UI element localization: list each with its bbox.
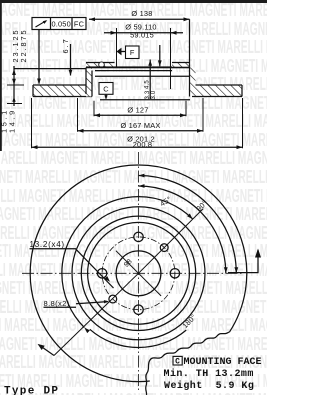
svg-text:Ø 138: Ø 138 <box>131 9 152 18</box>
horizontal centreline <box>22 272 244 274</box>
hub face thick line <box>86 66 190 68</box>
bolt hole bottom 13.2 <box>134 305 143 314</box>
inner circle R57.2 <box>81 216 195 330</box>
small hole 8.8 at 45deg <box>160 244 168 252</box>
datum F triangle and box <box>117 48 122 56</box>
svg-text:C: C <box>103 85 109 94</box>
hat wall left (hatched) <box>86 68 92 97</box>
dim dia 138 <box>89 18 190 20</box>
svg-text:Weight 5.9 Kg: Weight 5.9 Kg <box>164 380 254 392</box>
svg-text:59.015: 59.015 <box>130 31 154 40</box>
mounting flange left (hatched) <box>86 63 115 67</box>
small hole 8.8 at 225deg <box>109 295 117 303</box>
dim dia 127 <box>94 101 186 117</box>
svg-text:0.050: 0.050 <box>51 19 71 28</box>
centre bore <box>116 251 161 296</box>
bore right edge <box>170 28 172 89</box>
svg-text:Ø 167 MAX: Ø 167 MAX <box>120 121 160 130</box>
hat wall right (hatched) <box>190 68 196 86</box>
scan border top <box>0 0 267 3</box>
svg-text:4.5: 4.5 <box>145 80 151 89</box>
diagonal NW short <box>116 251 139 274</box>
svg-text:Ø 127: Ø 127 <box>127 106 148 115</box>
angular dim arc 90deg <box>139 176 237 274</box>
svg-text:180°: 180° <box>180 312 198 330</box>
inner circle R50.9 <box>88 222 190 324</box>
diagonal NE (45 deg) <box>139 209 204 274</box>
feature control frame (runout 0.050 FC) <box>32 18 86 30</box>
dim 3.0/3.3 vertical in bore <box>149 60 151 100</box>
bolt hole left 13.2 <box>97 269 106 278</box>
bore left edge <box>116 28 118 67</box>
FCF leader arrow to friction surface <box>38 30 40 84</box>
svg-text:90°: 90° <box>194 198 209 213</box>
torn edge (break line) <box>146 332 229 395</box>
angular dim arc 45deg <box>139 186 226 273</box>
left dimension line 23.125 / 15.1 <box>13 66 15 106</box>
left overall-height extension line <box>14 68 86 70</box>
bolt hole in flange <box>99 62 105 68</box>
bolt hole top 13.2 <box>134 232 143 241</box>
diagonal SW (225 deg) <box>54 273 139 355</box>
friction ring right (hatched) <box>190 85 243 97</box>
svg-text:6.7: 6.7 <box>61 37 70 53</box>
diagonal SE short <box>139 273 162 296</box>
friction ring left (hatched) <box>33 85 86 97</box>
svg-text:45°: 45° <box>158 194 173 208</box>
svg-text:200.8: 200.8 <box>133 140 153 149</box>
svg-text:22.875: 22.875 <box>19 28 28 62</box>
svg-text:MOUNTING FACE: MOUNTING FACE <box>184 357 262 368</box>
svg-text:Type DP: Type DP <box>4 386 59 395</box>
horizontal reference arrow right <box>228 250 258 273</box>
svg-text:3.3: 3.3 <box>145 90 151 99</box>
svg-text:13.2(x4): 13.2(x4) <box>30 240 65 249</box>
mounting flange right (hatched) <box>172 63 190 67</box>
note box C MOUNTING FACE <box>173 356 182 365</box>
hub bottom (mounting face C) <box>100 99 190 101</box>
svg-text:14.9: 14.9 <box>8 108 17 133</box>
bolt circle (centreline) <box>102 237 175 310</box>
angular dim arc 180deg <box>62 197 193 328</box>
svg-text:Min. TH 13.2mm: Min. TH 13.2mm <box>164 368 254 380</box>
aux arrow at hub face <box>159 45 161 66</box>
dia 138 right extension + wall edge <box>189 19 191 96</box>
dim 6.7 flange thickness <box>70 44 72 76</box>
svg-text:F: F <box>130 48 135 57</box>
vertical centreline <box>138 152 140 391</box>
dim dia 167 MAX <box>78 98 204 132</box>
datum C box and leader <box>99 83 113 95</box>
bolt hole right 13.2 <box>170 269 179 278</box>
svg-text:3.0: 3.0 <box>151 90 157 99</box>
dim dia 59.110/59.015 <box>117 32 171 34</box>
dim dia 201.2/200.8 <box>32 98 243 148</box>
scan border left <box>0 0 2 151</box>
hub step line <box>95 70 172 72</box>
hub inner step line <box>95 75 190 77</box>
rotation arrow SW <box>41 346 55 356</box>
svg-text:C: C <box>175 358 180 367</box>
inner circle R66.5 <box>72 207 205 340</box>
angular dim arc lower segment <box>90 329 186 347</box>
svg-text:8.8(x2): 8.8(x2) <box>44 299 70 308</box>
svg-text:FC: FC <box>74 19 85 28</box>
outer circle with torn-out lower right <box>30 165 247 382</box>
